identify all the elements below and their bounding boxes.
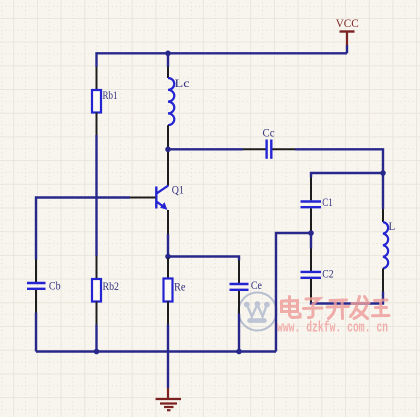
svg-text:Re: Re: [174, 279, 186, 293]
pin Rb1 pin 2: [96, 113, 98, 136]
wire Lc top stub: [167, 53, 169, 67]
resistor Re: [164, 279, 173, 302]
wire C1-C2 node: [310, 231, 312, 249]
svg-text:L: L: [389, 219, 396, 233]
node junction C1 C2: [308, 230, 314, 236]
wire ground link: [276, 233, 311, 352]
pin Rb2 pin 1: [96, 256, 98, 279]
svg-text:C1: C1: [322, 195, 333, 209]
pin Q1 emitter: [167, 210, 169, 234]
wire Cb bottom: [35, 313, 37, 352]
wire C2 bottom to L bottom: [311, 292, 383, 304]
pin Q1 base: [130, 197, 156, 199]
pin Rb2 pin 2: [96, 302, 98, 325]
pin L pin 2: [382, 268, 384, 291]
pin Ce pin 1: [238, 261, 240, 284]
transistor Q1: [156, 183, 184, 210]
svg-text:Q1: Q1: [172, 183, 184, 197]
wire Rb column lower: [95, 325, 97, 352]
pin C1 pin 1: [310, 178, 312, 201]
pin Ce pin 2: [238, 291, 240, 314]
svg-text:Ce: Ce: [251, 278, 262, 292]
node junction emitter: [165, 254, 171, 260]
pin C2 pin 1: [310, 249, 312, 272]
pin Lc pin 2: [167, 125, 169, 148]
pin Re pin 2: [167, 302, 169, 325]
wire VCC stem: [346, 45, 348, 53]
wire top rail: [96, 52, 348, 54]
pin Cc pin 2: [273, 148, 296, 150]
watermark text: [277, 297, 389, 337]
pin L pin 1: [382, 209, 384, 222]
wire Re bottom to ground: [167, 325, 169, 389]
capacitor Cc: [263, 126, 275, 159]
node junction top rail / Lc: [165, 51, 171, 57]
capacitor Cb: [27, 278, 61, 292]
svg-text:Rb2: Rb2: [103, 279, 120, 293]
wire emitter to Ce: [168, 257, 239, 261]
wire bottom rail: [36, 350, 276, 352]
pin Rb1 pin 1: [96, 67, 98, 90]
svg-text:Rb1: Rb1: [103, 88, 118, 102]
inductor Lc: [168, 78, 174, 125]
wire collector node: [167, 148, 169, 152]
wire emitter node: [167, 234, 169, 258]
watermark W logo: [239, 293, 277, 331]
wire Rb column upper: [95, 52, 97, 67]
svg-text:Cc: Cc: [263, 126, 275, 140]
pin Re pin 1: [167, 258, 169, 279]
char zi: [304, 299, 323, 318]
ground: [156, 388, 182, 410]
capacitor Ce: [230, 278, 263, 292]
wire L-C1 link: [311, 173, 383, 178]
svg-text:Lc: Lc: [175, 76, 190, 90]
pin Cb pin 1: [35, 260, 37, 283]
char dian: [282, 297, 301, 318]
capacitor C2: [301, 266, 334, 280]
char fa: [351, 297, 370, 319]
wire L top: [382, 173, 384, 209]
capacitor C1: [301, 195, 333, 209]
pin Cb pin 2: [35, 290, 37, 313]
node junction L top: [380, 170, 386, 176]
wire Cc left: [168, 148, 243, 150]
pin C2 pin 2: [310, 279, 312, 302]
wire Rb column middle: [95, 135, 97, 256]
node junction Cc tap: [165, 147, 171, 153]
inductor L: [383, 222, 388, 268]
resistor Rb2: [92, 279, 101, 302]
node junction rail Rb2: [94, 349, 100, 355]
pin Lc pin 1: [167, 67, 169, 78]
power VCC: [336, 16, 359, 45]
wire base left: [36, 198, 130, 260]
svg-text:VCC: VCC: [336, 16, 359, 30]
resistor Rb1: [92, 90, 101, 113]
pin C1 pin 2: [310, 208, 312, 231]
char kai: [327, 300, 349, 319]
pin Cc pin 1: [243, 148, 266, 150]
svg-text:Cb: Cb: [49, 278, 61, 292]
svg-text:C2: C2: [322, 266, 333, 280]
wire Ce bottom: [238, 314, 240, 352]
wire Cc right to L column: [295, 149, 383, 173]
svg-text:www. dzkfw. com. cn: www. dzkfw. com. cn: [277, 320, 388, 336]
pin Q1 collector: [167, 152, 169, 186]
char wang: [373, 300, 390, 316]
node junction rail Ce: [236, 349, 242, 355]
